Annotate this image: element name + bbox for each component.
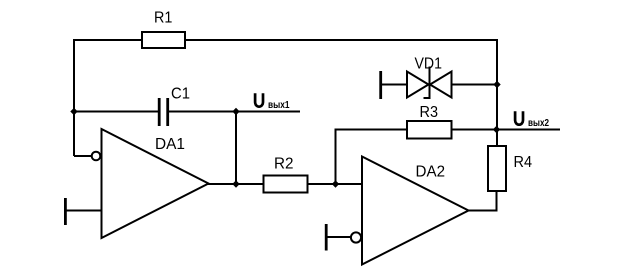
wire DA1 output row: [207, 183, 362, 185]
junction VD1 right: [493, 81, 500, 88]
resistor R4: [488, 146, 506, 191]
wire top feedback rail: [74, 40, 497, 156]
wire vertical node A: [235, 112, 237, 185]
node Uvyx2: [515, 111, 523, 125]
wire DA2 inverting input: [326, 236, 352, 238]
svg-text:C1: C1: [171, 85, 190, 102]
junction R2 right: [332, 180, 339, 187]
wire C1 row left: [74, 111, 158, 113]
svg-text:R3: R3: [420, 104, 439, 121]
svg-text:R4: R4: [514, 154, 533, 171]
svg-text:R2: R2: [274, 155, 294, 172]
svg-text:вых2: вых2: [528, 117, 549, 129]
terminal bar DA1 input: [64, 198, 67, 225]
junction Uvyx1: [232, 108, 239, 115]
wire right vertical rail: [496, 39, 498, 146]
wire DA1 non-inverting input: [65, 210, 102, 212]
junction C1 left: [70, 108, 77, 115]
terminal bar DA2 input: [325, 224, 328, 251]
wire DA1 inverting input: [74, 155, 92, 157]
svg-text:VD1: VD1: [415, 55, 443, 72]
svg-text:R1: R1: [154, 9, 172, 26]
junction DA1 output: [232, 180, 239, 187]
svg-text:вых1: вых1: [268, 99, 290, 111]
op-amp DA2: [362, 157, 469, 265]
node Uvyx1: [255, 93, 263, 106]
wire C1 row right to Uvyx1 stub: [168, 111, 300, 113]
resistor R1: [142, 32, 185, 48]
svg-text:DA1: DA1: [155, 136, 185, 153]
op-amp DA1: [102, 129, 209, 238]
junction Uvyx2: [493, 126, 500, 133]
resistor R2: [264, 176, 308, 193]
wire DA2 output to R4: [468, 192, 497, 211]
wire VD1 row: [380, 84, 497, 86]
resistor R3: [407, 121, 452, 139]
wire R3 row right to Uvyx2 stub: [452, 129, 560, 131]
diode VD1: [379, 71, 382, 99]
wire vertical R2 to R3 branch: [336, 130, 407, 185]
capacitor C1: [158, 98, 161, 126]
svg-text:DA2: DA2: [416, 163, 446, 180]
